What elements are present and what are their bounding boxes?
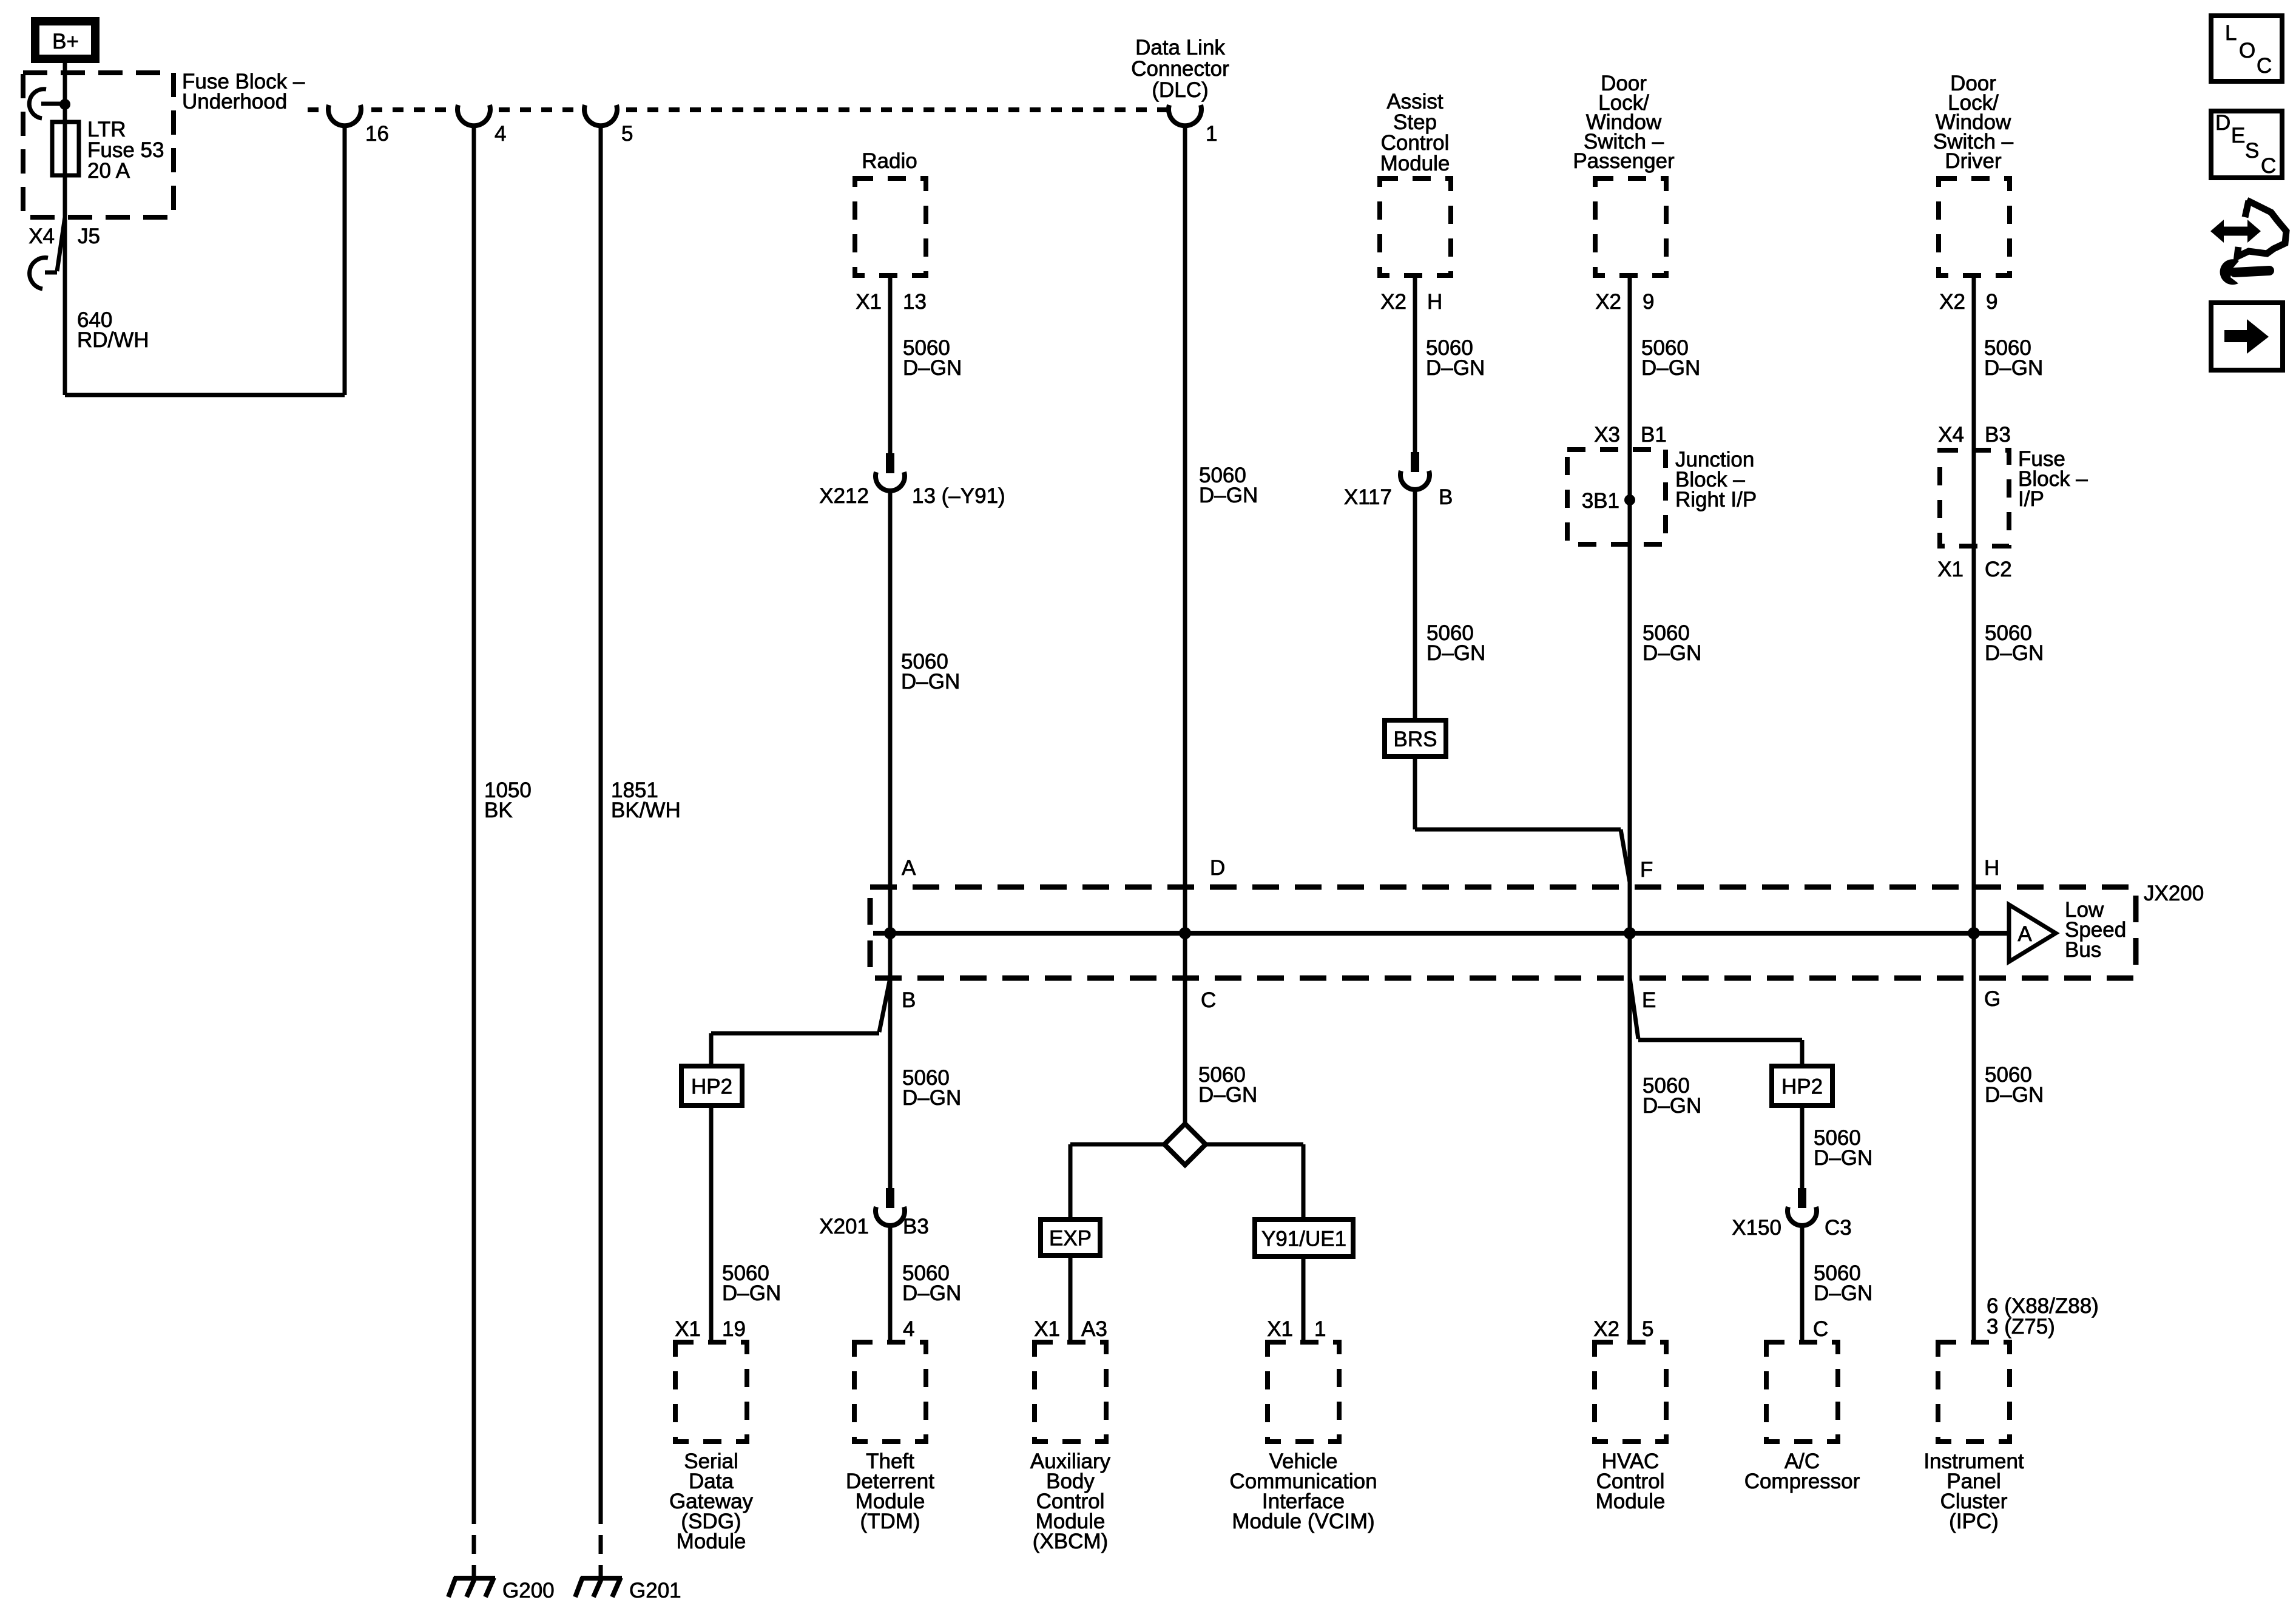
svg-text:D–GN: D–GN	[1198, 1083, 1257, 1107]
icon DESC box	[2211, 111, 2282, 178]
svg-text:C2: C2	[1985, 558, 2012, 581]
fuse block I/P dashed box	[1940, 450, 2009, 546]
svg-text:Module: Module	[1596, 1490, 1666, 1513]
svg-text:L: L	[2225, 21, 2237, 45]
svg-text:D–GN: D–GN	[1985, 1083, 2044, 1107]
svg-text:C: C	[2257, 54, 2272, 78]
svg-text:E: E	[1642, 988, 1656, 1012]
svg-text:A3: A3	[1081, 1317, 1107, 1341]
wire X150 to A/C compressor	[1800, 1224, 1805, 1342]
wire B+ to fuse	[63, 63, 67, 395]
svg-text:RD/WH: RD/WH	[77, 328, 149, 352]
svg-text:20 A: 20 A	[87, 159, 130, 183]
svg-text:D–GN: D–GN	[902, 1281, 961, 1305]
svg-text:B1: B1	[1641, 423, 1667, 447]
svg-text:D: D	[1210, 856, 1225, 880]
svg-text:B3: B3	[1985, 423, 2011, 447]
svg-text:X150: X150	[1732, 1216, 1781, 1240]
svg-text:D: D	[2215, 111, 2230, 135]
connector clip upper (fuse block internal)	[41, 102, 62, 106]
wire passenger to junction block	[1628, 275, 1632, 933]
svg-text:D–GN: D–GN	[1985, 641, 2044, 665]
battery B+ symbol	[35, 21, 95, 59]
svg-text:Module (VCIM): Module (VCIM)	[1232, 1510, 1374, 1533]
wire bus C down to splice	[1183, 933, 1187, 1124]
connector X117 B	[1411, 452, 1419, 472]
wire radio to X212	[888, 275, 893, 453]
connector JX200 dashed box	[870, 887, 2136, 978]
module A/C Compressor	[1766, 1342, 1838, 1442]
wire BRS to node F	[1413, 757, 1417, 829]
svg-text:D–GN: D–GN	[901, 670, 960, 694]
svg-text:E: E	[2231, 124, 2245, 147]
svg-text:(XBCM): (XBCM)	[1033, 1530, 1108, 1553]
node junction F/E	[1624, 927, 1636, 939]
svg-text:B: B	[1439, 485, 1453, 509]
wire X201 to TDM	[888, 1224, 893, 1342]
svg-text:X2: X2	[1939, 290, 1965, 314]
svg-text:13 (–Y91): 13 (–Y91)	[912, 484, 1005, 508]
module Serial Data Gateway (SDG) Module	[675, 1342, 747, 1442]
svg-text:Compressor: Compressor	[1744, 1470, 1860, 1493]
node junction H/G	[1968, 927, 1980, 939]
svg-text:H: H	[1427, 290, 1442, 314]
svg-text:Right I/P: Right I/P	[1675, 488, 1757, 511]
svg-text:G201: G201	[629, 1579, 681, 1602]
svg-text:3 (Z75): 3 (Z75)	[1987, 1315, 2055, 1338]
wire 1050 BK	[472, 124, 476, 1505]
svg-text:X2: X2	[1595, 290, 1621, 314]
svg-text:D–GN: D–GN	[1427, 641, 1485, 665]
svg-text:HP2: HP2	[691, 1075, 732, 1099]
splice pack HP2 left	[681, 1066, 742, 1106]
bus driver triangle A	[2009, 905, 2056, 962]
ground G201	[581, 1576, 622, 1581]
svg-text:H: H	[1984, 856, 1999, 880]
svg-text:EXP: EXP	[1049, 1227, 1092, 1251]
svg-text:A: A	[902, 856, 916, 880]
svg-text:Y91/UE1: Y91/UE1	[1261, 1227, 1346, 1251]
svg-text:X4: X4	[29, 224, 55, 248]
svg-text:F: F	[1640, 858, 1653, 882]
connector cup DLC pin 1	[1170, 104, 1200, 115]
wire bus B down to TDM	[888, 933, 893, 1188]
svg-text:(TDM): (TDM)	[860, 1510, 920, 1533]
node junction A	[884, 927, 896, 939]
svg-text:C: C	[1813, 1317, 1828, 1341]
svg-text:Bus: Bus	[2065, 938, 2101, 962]
svg-text:S: S	[2245, 139, 2259, 163]
svg-text:I/P: I/P	[2018, 487, 2044, 511]
splice diamond	[1164, 1124, 1206, 1165]
connector X212 13 (-Y91)	[886, 453, 894, 473]
svg-text:Data Link: Data Link	[1135, 36, 1225, 59]
svg-text:X1: X1	[856, 290, 882, 314]
svg-text:19: 19	[722, 1317, 746, 1341]
splice pack EXP	[1041, 1220, 1100, 1255]
fuse LTR Fuse 53 20 A	[52, 122, 79, 175]
svg-text:13: 13	[903, 290, 927, 314]
wire driver to fuse block I/P	[1972, 275, 1976, 933]
svg-text:X212: X212	[819, 484, 869, 508]
node junction D	[1179, 927, 1191, 939]
svg-text:X2: X2	[1593, 1317, 1619, 1341]
svg-text:Connector: Connector	[1131, 57, 1229, 81]
wire HP2 to X150	[1800, 1106, 1805, 1188]
svg-text:BK: BK	[484, 798, 513, 822]
wire DLC pin 1 to bus D	[1183, 124, 1187, 933]
svg-text:BK/WH: BK/WH	[611, 798, 681, 822]
svg-text:D–GN: D–GN	[1984, 356, 2043, 380]
module HVAC Control Module	[1595, 1342, 1666, 1442]
connector X201 B3	[886, 1188, 894, 1208]
svg-text:Passenger: Passenger	[1573, 149, 1675, 173]
svg-text:X201: X201	[819, 1215, 869, 1238]
junction block - right I/P dashed box	[1567, 450, 1666, 544]
svg-text:G: G	[1984, 987, 2001, 1011]
icon LOC box	[2211, 16, 2282, 81]
svg-text:D–GN: D–GN	[902, 1086, 961, 1110]
svg-text:X3: X3	[1594, 423, 1620, 447]
wire 1851 BK/WH	[599, 124, 603, 1505]
connector X150 C3	[1798, 1188, 1806, 1208]
svg-text:C3: C3	[1825, 1216, 1852, 1240]
splice pack Y91/UE1	[1255, 1220, 1353, 1257]
svg-text:Module: Module	[677, 1530, 746, 1553]
svg-text:D–GN: D–GN	[1426, 356, 1485, 380]
svg-text:D–GN: D–GN	[903, 356, 962, 380]
connector cup 4	[459, 104, 489, 115]
connector cup 16	[329, 104, 360, 115]
svg-text:J5: J5	[78, 224, 100, 248]
wire EXP to XBCM	[1069, 1255, 1073, 1342]
icon harness repair (arrow, outline, wrench)	[2210, 200, 2286, 285]
svg-text:X1: X1	[1267, 1317, 1293, 1341]
svg-text:Driver: Driver	[1945, 149, 2002, 173]
splice pack BRS	[1385, 720, 1446, 757]
svg-text:16: 16	[365, 122, 389, 146]
svg-text:4: 4	[495, 122, 506, 146]
connector cup 5	[586, 104, 616, 115]
wire X212 to bus A	[888, 489, 893, 933]
svg-text:1: 1	[1206, 122, 1217, 146]
module Theft Deterrent Module (TDM)	[854, 1342, 926, 1442]
splice pack HP2 right	[1772, 1066, 1832, 1106]
wire branch to HP2 left	[879, 978, 890, 1032]
module Vehicle Communication Interface Module (VCIM)	[1268, 1342, 1339, 1442]
wire branch to HP2 right	[1630, 978, 1638, 1039]
svg-text:G200: G200	[502, 1579, 555, 1602]
svg-text:X4: X4	[1938, 423, 1964, 447]
svg-text:D–GN: D–GN	[1643, 641, 1701, 665]
wire HP2 to SDG	[709, 1106, 714, 1342]
svg-text:D–GN: D–GN	[1643, 1094, 1701, 1118]
module Instrument Panel Cluster (IPC)	[1938, 1342, 2010, 1442]
svg-text:9: 9	[1986, 290, 1997, 314]
svg-text:D–GN: D–GN	[1199, 484, 1258, 507]
svg-text:Underhood: Underhood	[182, 90, 287, 113]
ground G200	[454, 1576, 495, 1581]
node junction at fuse block feed	[59, 99, 70, 110]
svg-text:4: 4	[903, 1317, 914, 1341]
module Auxiliary Body Control Module (XBCM)	[1035, 1342, 1106, 1442]
svg-text:D–GN: D–GN	[1814, 1281, 1872, 1305]
svg-text:9: 9	[1643, 290, 1654, 314]
wire Y91/UE1 to VCIM	[1302, 1257, 1306, 1342]
svg-text:X2: X2	[1380, 290, 1406, 314]
svg-text:5: 5	[621, 122, 633, 146]
svg-text:BRS: BRS	[1394, 727, 1437, 751]
svg-text:1: 1	[1314, 1317, 1326, 1341]
wire X117 to BRS	[1413, 488, 1417, 720]
svg-text:D–GN: D–GN	[1814, 1146, 1872, 1170]
svg-text:B: B	[902, 988, 916, 1012]
wire dashed DLC bus line	[308, 107, 1167, 112]
icon forward arrow box	[2211, 303, 2283, 370]
wire bus E down to HVAC	[1628, 933, 1632, 1342]
svg-text:O: O	[2239, 39, 2255, 62]
wire splice right to Y91/UE1	[1206, 1143, 1303, 1147]
svg-text:Module: Module	[1380, 152, 1450, 175]
svg-text:(DLC): (DLC)	[1152, 78, 1208, 102]
svg-text:(IPC): (IPC)	[1949, 1510, 1999, 1533]
svg-text:X117: X117	[1344, 485, 1392, 509]
svg-text:X1: X1	[1937, 558, 1963, 581]
wire assist to X117	[1413, 275, 1417, 452]
svg-text:X1: X1	[1034, 1317, 1060, 1341]
svg-text:HP2: HP2	[1781, 1075, 1823, 1099]
svg-text:D–GN: D–GN	[722, 1281, 781, 1305]
svg-text:B+: B+	[52, 30, 79, 53]
svg-text:X1: X1	[675, 1317, 701, 1341]
wire bus G down to IPC	[1972, 933, 1976, 1342]
wire low speed bus	[873, 931, 2009, 936]
wire splice left to EXP	[1070, 1143, 1164, 1147]
svg-text:JX200: JX200	[2144, 882, 2204, 905]
svg-text:C: C	[2261, 154, 2276, 178]
svg-text:A: A	[2017, 922, 2032, 946]
fuse block underhood dashed box	[23, 73, 174, 217]
svg-text:3B1: 3B1	[1582, 489, 1619, 513]
svg-text:Radio: Radio	[862, 149, 917, 173]
svg-text:B3: B3	[903, 1215, 929, 1238]
svg-text:5: 5	[1642, 1317, 1653, 1341]
svg-text:D–GN: D–GN	[1641, 356, 1700, 380]
svg-text:C: C	[1201, 988, 1216, 1012]
